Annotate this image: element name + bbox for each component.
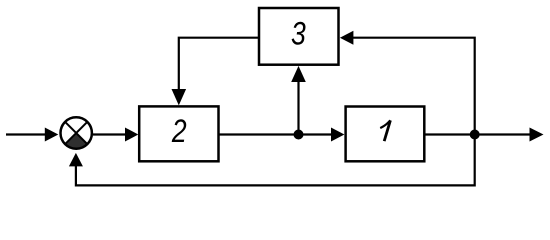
wire: node A up to block 3 [297,81,299,135]
arrowhead into block 3 right side [340,31,354,45]
block 2 [139,106,218,161]
wire: node B down, left and up to summing junction (feedback) [76,135,475,186]
arrowhead into summing junction bottom [69,153,83,167]
arrowhead into block 2 top [172,89,187,105]
block 3 [259,8,339,65]
arrowhead into block 3 bottom [291,66,306,82]
node B (output junction dot) [470,130,480,140]
arrowhead into summing junction [45,128,59,142]
wire: block 2 to block 1 [219,133,333,135]
wire: input line [6,133,45,135]
svg-text:3: 3 [291,16,306,52]
node A (junction dot between block 2 and block 1) [294,130,304,140]
summing junction S1 [60,117,91,148]
arrowhead output [530,128,544,142]
arrowhead into block 2 [125,128,138,142]
wire: block 3 left side down to block 2 top [179,38,259,90]
wire: summing junction to block 2 [93,133,127,135]
block 1 [346,107,425,162]
svg-text:2: 2 [171,114,187,150]
wire: block 1 to output [424,133,530,135]
arrowhead into block 1 [331,128,344,142]
wire: node B up and left to block 3 right side [353,38,475,135]
